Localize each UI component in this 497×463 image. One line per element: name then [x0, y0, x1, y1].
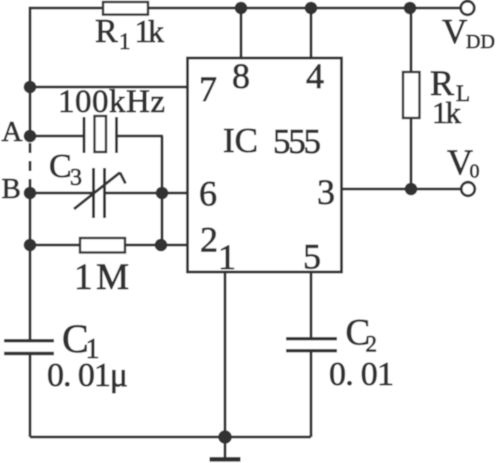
wire C1 down — [29, 355, 32, 437]
wire pin3 row — [342, 188, 461, 191]
resistor R1 — [103, 2, 148, 15]
wire B to C3 — [30, 192, 92, 195]
svg-text:1: 1 — [119, 29, 131, 54]
wire vertical crystal/C3 junction — [161, 136, 164, 245]
svg-text:DD: DD — [466, 31, 495, 53]
svg-text:4: 4 — [306, 56, 324, 96]
wire bottom rail — [30, 436, 311, 439]
capacitor C2 bottom plate — [286, 349, 337, 352]
node ground — [218, 430, 232, 444]
wire 1M row left — [30, 244, 80, 247]
terminal V0 circle — [461, 182, 475, 196]
svg-text:8: 8 — [232, 56, 250, 96]
wire pin1 to ground — [224, 272, 227, 437]
svg-text:5: 5 — [303, 237, 321, 277]
capacitor C1 bottom plate — [4, 352, 54, 355]
wire top rail — [31, 7, 461, 10]
node 1M right — [155, 239, 168, 252]
wire C3 to pin6 — [105, 192, 187, 195]
ground bar — [210, 457, 241, 462]
node top pin4 — [305, 2, 318, 15]
wire left vertical upper — [30, 8, 31, 137]
node B — [24, 187, 37, 200]
wire left vertical lower — [29, 188, 32, 339]
svg-text:0. 01μ: 0. 01μ — [47, 357, 128, 394]
node C3-crystal junction — [156, 187, 169, 200]
svg-text:V: V — [442, 12, 467, 51]
svg-text:B: B — [2, 173, 21, 205]
node top RL — [404, 2, 417, 15]
wire 1M to pin2 — [125, 244, 187, 247]
capacitor C3 left plate — [92, 168, 95, 218]
crystal 100kHz right plate — [115, 117, 118, 153]
wire dashed A-B — [29, 143, 32, 188]
resistor RL body — [403, 72, 420, 118]
svg-text:3: 3 — [70, 165, 82, 191]
terminal VDD circle — [461, 1, 475, 15]
svg-text:555: 555 — [273, 122, 321, 161]
svg-text:1: 1 — [218, 237, 236, 277]
svg-text:0. 01: 0. 01 — [329, 356, 394, 393]
svg-text:1M: 1M — [74, 257, 129, 298]
node pin7 left — [24, 81, 37, 94]
node 1M left — [24, 239, 37, 252]
capacitor C1 top plate — [4, 339, 54, 342]
svg-text:C: C — [49, 148, 72, 185]
capacitor C2 top plate — [286, 337, 337, 340]
wire RL bottom — [410, 118, 413, 189]
svg-text:1k: 1k — [135, 13, 165, 49]
svg-text:100kHz: 100kHz — [58, 84, 165, 120]
svg-text:3: 3 — [317, 172, 335, 212]
node A — [24, 130, 37, 143]
ground stub — [224, 437, 227, 458]
IC 555 body — [188, 58, 342, 272]
svg-text:A: A — [2, 116, 23, 148]
crystal 100kHz body — [95, 116, 107, 152]
wire RL top — [410, 8, 413, 72]
wire crystal to corner — [117, 135, 163, 138]
svg-text:6: 6 — [199, 174, 217, 214]
wire C2 down — [310, 352, 313, 437]
svg-text:2: 2 — [200, 220, 218, 260]
svg-text:1k: 1k — [432, 95, 462, 130]
wire A to crystal — [30, 135, 83, 138]
capacitor C3 arrow barb — [120, 173, 126, 184]
node V0 — [405, 183, 418, 196]
capacitor C3 right plate — [103, 168, 106, 218]
wire pin8 — [240, 8, 243, 57]
svg-text:7: 7 — [199, 69, 217, 109]
wire pin5 to C2 — [310, 272, 313, 338]
node top pin8 — [235, 2, 248, 15]
wire pin7 row — [30, 86, 187, 89]
svg-text:0: 0 — [470, 161, 480, 183]
capacitor C3 arrow — [74, 173, 120, 210]
svg-text:2: 2 — [366, 332, 378, 357]
resistor 1M body — [80, 238, 125, 253]
svg-text:IC: IC — [223, 121, 258, 160]
crystal 100kHz left plate — [83, 117, 86, 153]
wire pin4 — [310, 8, 313, 57]
svg-text:R: R — [95, 13, 118, 50]
